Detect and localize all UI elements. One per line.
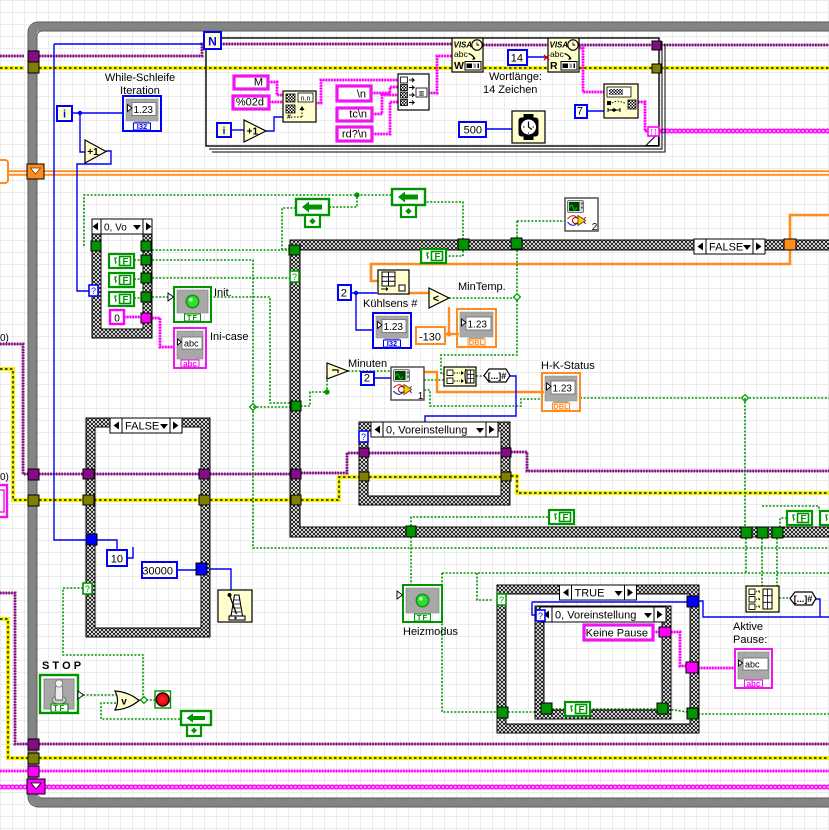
svg-text:I32: I32 — [137, 122, 147, 131]
svg-text:?: ? — [361, 432, 366, 442]
svg-text:+1: +1 — [247, 127, 259, 138]
svg-text:#: # — [287, 114, 291, 121]
svg-text:0): 0) — [0, 333, 9, 344]
svg-text:1.23: 1.23 — [384, 322, 404, 333]
svg-text:F: F — [801, 513, 807, 524]
svg-text:I32: I32 — [387, 339, 397, 348]
svg-text:?: ? — [85, 584, 90, 594]
svg-text:FALSE: FALSE — [709, 242, 743, 254]
svg-text:%02d: %02d — [236, 97, 264, 109]
svg-text:v: v — [121, 697, 127, 708]
svg-text:0, Voreinstellung: 0, Voreinstellung — [555, 610, 636, 622]
svg-text:Keine Pause: Keine Pause — [586, 628, 648, 640]
svg-text:F: F — [435, 251, 441, 262]
svg-text:10: 10 — [111, 554, 123, 566]
svg-text:M: M — [254, 77, 263, 89]
svg-text:Heizmodus: Heizmodus — [403, 626, 459, 638]
svg-text:Pause:: Pause: — [733, 634, 767, 646]
svg-text:[...]#: [...]# — [488, 371, 507, 381]
svg-text:F: F — [123, 256, 129, 267]
svg-text:Kühlsens #: Kühlsens # — [363, 298, 418, 310]
svg-text:rd?\n: rd?\n — [342, 129, 367, 141]
svg-text:2: 2 — [341, 288, 347, 300]
svg-text:30000: 30000 — [142, 566, 173, 578]
svg-text:?: ? — [91, 286, 96, 296]
svg-text:TF: TF — [53, 704, 66, 713]
svg-text:▥: ▥ — [419, 91, 425, 97]
svg-text:abc: abc — [184, 339, 199, 349]
svg-text:MinTemp.: MinTemp. — [458, 281, 506, 293]
svg-text:TF: TF — [187, 313, 198, 322]
svg-text:14 Zeichen: 14 Zeichen — [483, 84, 537, 96]
svg-text:+1: +1 — [87, 147, 99, 158]
svg-text:7: 7 — [577, 106, 583, 118]
svg-text:F: F — [563, 512, 569, 523]
svg-text:2: 2 — [592, 222, 598, 233]
svg-text:F: F — [123, 275, 129, 286]
svg-text:?: ? — [499, 595, 504, 605]
svg-text:-130: -130 — [419, 332, 441, 344]
svg-text:0: 0 — [114, 314, 120, 325]
svg-text:Ini-case: Ini-case — [210, 331, 249, 343]
svg-text:abc: abc — [183, 359, 197, 368]
svg-text:1.23: 1.23 — [553, 384, 573, 395]
svg-text:i: i — [63, 109, 66, 121]
svg-text:Init.: Init. — [214, 287, 232, 299]
svg-text:0): 0) — [0, 472, 9, 483]
svg-text:N: N — [208, 35, 217, 49]
svg-text:1.23: 1.23 — [468, 320, 488, 331]
svg-text:abc: abc — [745, 660, 760, 670]
svg-text:[ ]: [ ] — [650, 128, 656, 137]
svg-text:abc: abc — [550, 49, 564, 59]
svg-text:<: < — [433, 293, 439, 305]
svg-text:i: i — [223, 126, 226, 137]
svg-text:n.n: n.n — [301, 96, 311, 103]
svg-text:DBL: DBL — [469, 338, 485, 347]
svg-text:1: 1 — [418, 391, 424, 402]
svg-text:Aktive: Aktive — [733, 621, 763, 633]
svg-text:While-Schleife: While-Schleife — [105, 72, 175, 84]
svg-text:0, Vo: 0, Vo — [104, 223, 127, 234]
svg-text:TRUE: TRUE — [575, 588, 605, 600]
svg-text:abc: abc — [454, 49, 468, 59]
svg-text:F: F — [123, 294, 129, 305]
svg-text:R: R — [550, 60, 558, 72]
svg-text:TF: TF — [417, 613, 428, 622]
svg-text:14: 14 — [511, 53, 523, 65]
svg-text:Minuten: Minuten — [348, 358, 387, 370]
svg-text:H-K-Status: H-K-Status — [541, 360, 595, 372]
svg-text:\n: \n — [357, 89, 366, 101]
svg-text:tc\n: tc\n — [349, 109, 367, 121]
svg-text:[...]#: [...]# — [794, 594, 813, 604]
svg-text:Iteration: Iteration — [120, 85, 160, 97]
svg-text:?: ? — [538, 611, 543, 621]
svg-text:?: ? — [292, 272, 297, 282]
svg-text:DBL: DBL — [553, 402, 569, 411]
svg-text:1.23: 1.23 — [134, 105, 154, 116]
svg-text:0, Voreinstellung: 0, Voreinstellung — [386, 425, 467, 437]
svg-text:FALSE: FALSE — [125, 421, 159, 433]
svg-text:Wortlänge:: Wortlänge: — [489, 71, 542, 83]
svg-text:S T O P: S T O P — [42, 660, 81, 672]
svg-text:500: 500 — [464, 125, 482, 137]
svg-text:abc: abc — [747, 679, 761, 688]
svg-text:F: F — [579, 704, 585, 715]
svg-text:W: W — [454, 60, 464, 72]
svg-text:2: 2 — [364, 373, 370, 385]
